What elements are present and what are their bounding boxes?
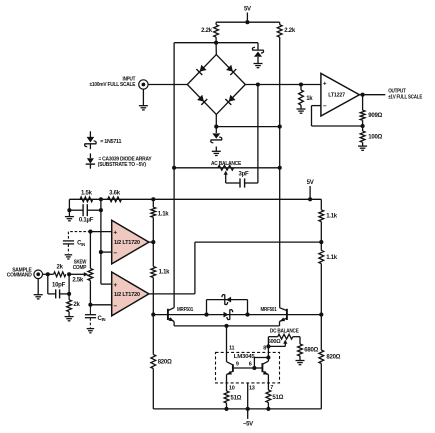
svg-text:−: − [113,250,117,257]
node sample command connector [34,270,43,279]
svg-text:2.5k: 2.5k [72,278,84,284]
wire feedback from minus input [312,105,321,107]
potentiometer SKEW COMP 2.5k [88,269,93,281]
wire sample connector to 2k [43,273,54,275]
wire upper comparator output stub [149,241,153,243]
comparator U2a 1/2 LT1720 [112,220,149,264]
resistor 51 ohm left [224,391,229,403]
junction AC rail right [278,166,282,170]
svg-text:+: + [113,229,117,236]
resistor 820 ohm right [320,315,322,350]
diode D3 bridge bottom-left [197,95,204,102]
svg-text:= 1N5711: = 1N5711 [100,139,121,145]
junction upper minus input [99,250,103,254]
svg-text:OUTPUT: OUTPUT [388,88,406,94]
capacitor CIN lower (parasitic, dashed) [89,305,91,314]
svg-text:MRF501: MRF501 [261,307,277,313]
wire lower comparator plus input [100,283,102,285]
svg-text:2.2k: 2.2k [201,28,213,34]
wire top 5V rail [216,21,280,23]
junction common base node [252,366,256,370]
wire input connector to ground [142,89,144,106]
wire left drive vertical (bridge top to left MRF501 collector) [173,43,175,308]
junction plus input / CIN / pot [88,230,92,234]
power 5V supply top [246,13,248,23]
svg-text:COMMAND: COMMAND [7,272,32,278]
svg-text:LM3045: LM3045 [234,354,255,360]
wire MRF501 base rail [153,314,321,316]
svg-text:+: + [113,282,117,289]
resistor 2.2k right [279,22,281,25]
wire upper comparator minus input [101,251,112,253]
resistor 1.5k [80,197,93,202]
wire bridge bottom node right [216,126,279,128]
junction rail 5V tap [308,197,312,201]
capacitor 0.1uF [69,209,83,211]
resistor 1.1k upper-left [152,199,154,207]
resistor 3.6k [108,197,122,202]
wire 3pF vertical from bridge output [257,85,259,184]
junction divider node P [99,197,103,201]
resistor 2k to ground [68,294,70,300]
ground below 100 ohm [358,145,367,147]
junction feedback divider [361,124,365,128]
junction rail 51ohm right [266,407,270,411]
svg-text:MRF501: MRF501 [177,307,193,313]
svg-text:820Ω: 820Ω [158,360,172,366]
svg-text:3pF: 3pF [239,171,250,177]
svg-text:51Ω: 51Ω [231,395,242,401]
junction rail 51ohm left [224,407,228,411]
svg-text:680Ω: 680Ω [304,347,318,353]
resistor 100 ohm to ground [362,126,364,131]
junction bridge bottom / right drive column [278,125,282,129]
wire skew pot line [89,232,91,269]
svg-text:1k: 1k [306,96,313,102]
junction 2k / 10pF / wiper node [67,272,71,276]
svg-text:5V: 5V [244,7,251,13]
ground below clamp D5 [254,63,263,65]
junction bridge output / 1k tap [299,82,303,86]
resistor 680 ohm [298,344,303,356]
capacitor 10pF [47,274,49,294]
svg-text:820Ω: 820Ω [326,355,340,361]
junction bridge bottom drive node [214,125,218,129]
svg-text:1.1k: 1.1k [326,214,338,220]
wire bridge right vertex to LT1227 [245,84,321,86]
junction bridge top drive node [214,41,218,45]
wire pin8 collector up [267,346,269,361]
junction pin8 / pot node [266,344,270,348]
ground below 1k [297,108,306,110]
svg-text:−5V: −5V [243,422,253,428]
resistor 1.1k lower-left [152,242,154,266]
junction left MRF501 base node [151,313,155,317]
wire emitter tap to LM3045 Q collector (pin 11) [226,326,228,362]
svg-text:10: 10 [229,385,235,391]
wire 10pF node up [68,274,70,294]
svg-text:LT1227: LT1227 [328,93,345,99]
svg-text:2k: 2k [57,265,64,271]
transistor Q1 MRF501 left [167,309,169,320]
wire lower output to right drive [149,293,195,295]
junction LT1227 output [361,93,365,97]
svg-text:AC BALANCE: AC BALANCE [211,161,242,167]
svg-text:8: 8 [263,346,266,352]
svg-text:−: − [323,103,327,110]
wire clamp D6 to ground [215,147,217,152]
resistor 51 ohm right [266,390,271,403]
wire bottom -5V rail [153,408,321,410]
svg-text:DC BALANCE: DC BALANCE [270,329,299,335]
svg-text:CIN: CIN [77,241,85,247]
svg-text:100Ω: 100Ω [368,135,382,141]
wire divider to comparator inputs [100,199,102,284]
junction right drive wire [319,240,323,244]
resistor 909 ohm feedback [362,95,364,111]
transistor Q4 LM3045 right (diode connected) [262,361,268,364]
wire bridge bottom vertex stub [215,114,217,126]
svg-text:7: 7 [270,385,273,391]
wire rail left leg to ground [68,199,70,216]
svg-text:1.1k: 1.1k [159,269,171,275]
junction emitter rail to current source [224,324,228,328]
svg-text:±1V FULL SCALE: ±1V FULL SCALE [388,94,422,100]
wire right MRF501 emitter [279,322,281,326]
svg-text:2.2k: 2.2k [284,28,296,34]
junction diode-tie at pin8 column [266,355,270,359]
junction right MRF501 base node [319,313,323,317]
svg-text:3.6k: 3.6k [109,190,121,196]
wire common emitter rail [174,325,279,327]
wire LT1227 output [359,94,385,96]
diode D6 clamp 1N5711 at bridge bottom drive [215,127,217,133]
resistor 1k at LT1227 input [300,85,302,91]
ground below rail left leg [65,216,74,218]
svg-text:1.1k: 1.1k [158,211,170,217]
wire bridge top node left [174,42,216,44]
potentiometer DC BALANCE 500 ohm [278,334,293,339]
capacitor 3pF [226,182,240,184]
svg-text:1/2 LT1720: 1/2 LT1720 [114,292,140,298]
junction 10pF tap [46,272,50,276]
svg-text:−: − [113,303,117,310]
wire to skew pot wiper [69,273,85,275]
svg-text:COMP: COMP [73,265,87,271]
wire base to collector tie [253,358,255,369]
wire upper comparator plus input [90,231,111,233]
op-amp U1 LT1227 [321,73,360,116]
ground below 680 ohm [296,360,305,362]
wire rail right corner down [320,199,322,210]
junction 10pF right [67,292,71,296]
junction base-diode right [245,313,249,317]
ground below clamp D6 [212,150,221,152]
node input connector [139,80,148,89]
wire mid 5V rail [69,198,321,200]
svg-text:1/2 LT1720: 1/2 LT1720 [114,240,140,246]
junction lower minus / CIN [88,303,92,307]
svg-text:1.1k: 1.1k [326,255,338,261]
wire bridge top vertex stub [215,43,217,55]
junction base-diode left [204,313,208,317]
capacitor CIN upper (parasitic, dashed) [68,231,90,233]
wire pin 13 substrate to -5V [247,383,249,419]
svg-text:51Ω: 51Ω [272,395,283,401]
legend diode symbol CA3039 [89,153,91,158]
junction 0.1uF right [99,208,103,212]
wire skew pot to lower minus [89,281,91,305]
wire right drive vertical (bridge bottom to right MRF501 collector) [279,127,281,308]
junction top rail 5V tap [245,20,249,24]
wire left MRF501 emitter [173,322,175,326]
wire AC BALANCE rail [174,167,280,169]
junction 0.1uF left [67,208,71,212]
ground below sample connector [34,294,43,296]
wire input to bridge left vertex [148,84,188,86]
ground below input connector [139,105,148,107]
ground below CIN lower [87,328,95,330]
transistor Q2 MRF501 right [286,309,288,320]
wire bridge top node to clamp diode D5 [216,42,258,44]
wire diode pair top branch [206,300,208,315]
resistor 2.2k left [215,22,217,25]
diode D8 1N5711 pointing right (base line) [224,312,229,318]
svg-text:9: 9 [236,361,239,367]
svg-text:0.1µF: 0.1µF [79,218,94,224]
diode D1 bridge top-left [200,65,207,72]
svg-text:2k: 2k [73,302,80,308]
junction rail / left 1.1k column [151,197,155,201]
resistor 820 ohm left [152,315,154,355]
lm3045 dashed box [216,352,280,383]
svg-text:13: 13 [249,385,255,391]
svg-text:909Ω: 909Ω [368,113,382,119]
diode D4 bridge bottom-right [229,95,236,102]
junction AC rail left [172,166,176,170]
wire clamp D5 to ground [257,57,259,63]
wire sample connector to ground [37,279,39,295]
wire lower comparator minus input [90,304,111,306]
wire right 2.2k down to bridge bottom node [279,37,281,127]
diode D7 1N5711 pointing left (top branch) [226,297,231,303]
svg-text:6: 6 [249,361,252,367]
resistor 1.1k upper-right [320,209,322,211]
svg-text:(SUBSTRATE TO −5V): (SUBSTRATE TO −5V) [98,162,146,168]
comparator U2b 1/2 LT1720 [112,272,149,316]
transistor Q3 LM3045 left [227,362,233,365]
svg-text:11: 11 [229,346,235,352]
junction bridge output / 3pF tap [256,82,260,86]
resistor 2k series [54,272,66,277]
svg-text:1.5k: 1.5k [81,190,93,196]
junction rail pin13 [246,407,250,411]
potentiometer AC BALANCE [218,165,234,170]
svg-text:500Ω: 500Ω [268,339,281,345]
ground below 2k shunt [65,316,74,318]
svg-text:±100mV FULL SCALE: ±100mV FULL SCALE [90,82,136,88]
svg-text:5V: 5V [307,180,314,186]
wire Q3 emitter down (pin 10) [226,375,228,391]
ground below CIN upper [65,254,73,256]
legend diode symbol 1N5711 [89,131,91,137]
diode D2 bridge top-right [226,65,233,72]
svg-text:CIN: CIN [98,316,106,322]
junction upper comparator output [151,240,155,244]
svg-text:+: + [323,80,327,87]
wire Q4 emitter down (pin 7) [267,375,269,390]
diode D5 clamp 1N5711 at bridge top drive [254,51,262,56]
resistor 1.1k lower-right [320,242,322,250]
svg-text:10pF: 10pF [52,283,66,289]
wire sampling bridge diamond [187,55,216,85]
power 5V supply mid [309,186,311,199]
